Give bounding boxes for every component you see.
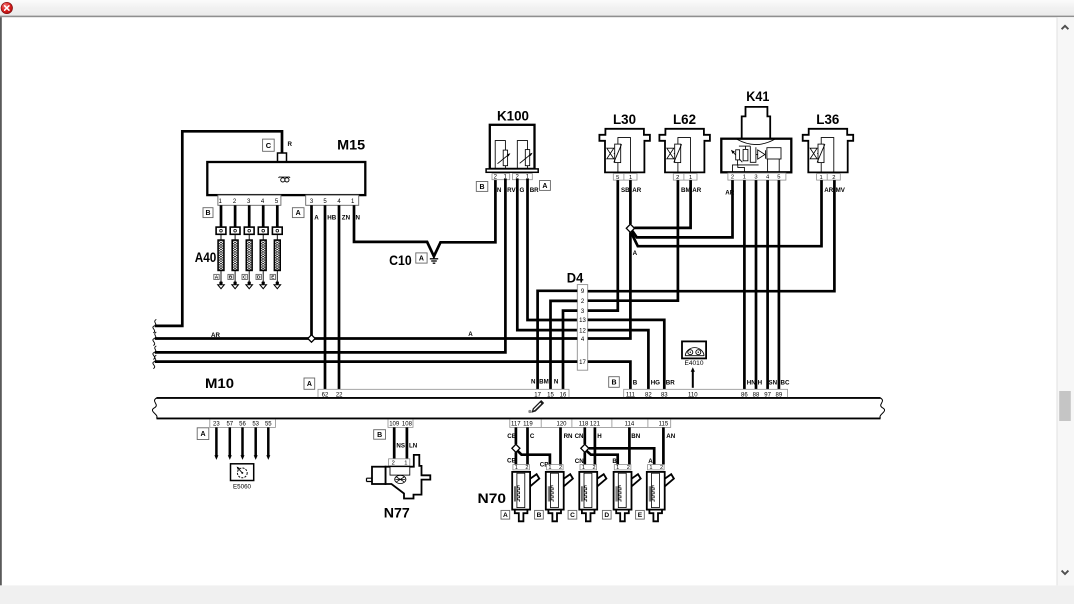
ground C10 symbol — [433, 256, 435, 259]
L36 internal resistor — [818, 144, 824, 163]
glow plug A40-D ground lead — [262, 270, 264, 281]
wire M10 pin117 to injector junction (CB) — [515, 427, 518, 444]
svg-text:2: 2 — [731, 175, 734, 181]
injector N70-A body — [512, 472, 530, 510]
glow plug A40-B heater body — [234, 234, 236, 240]
svg-text:A: A — [648, 458, 653, 465]
close button — [1, 2, 12, 13]
M10 bus left wavy end — [152, 398, 157, 419]
wire M10 pin115 to injector E pin2 (AN) — [662, 427, 665, 464]
glow plug A40-C ground lead — [248, 270, 250, 281]
wire K100 G to D4 pin 12 — [517, 179, 577, 330]
air flow meter K41 body — [721, 139, 791, 173]
svg-text:ZN: ZN — [342, 214, 351, 221]
wire M15 B3 to glow plug C — [248, 205, 251, 227]
K41 body arc — [737, 139, 775, 144]
svg-text:57: 57 — [226, 422, 233, 428]
svg-text:D4: D4 — [567, 270, 584, 286]
svg-text:B: B — [633, 379, 638, 386]
injector N70-E nozzle — [649, 510, 662, 522]
svg-text:L36: L36 — [816, 111, 839, 127]
svg-text:A: A — [503, 512, 508, 519]
sensor K100 box — [490, 125, 535, 169]
wire K41 pin4 to M10 pin97 (SN) — [766, 180, 769, 389]
svg-text:HG: HG — [651, 379, 660, 386]
svg-text:BR: BR — [666, 379, 675, 386]
ground node dot (A40-B) — [233, 281, 236, 284]
wire CB junction to injector B pin1 — [517, 451, 550, 465]
wire M15 B2 to glow plug B — [234, 205, 237, 227]
svg-text:BN: BN — [631, 433, 640, 440]
ECU M10 bus band — [157, 397, 881, 399]
svg-text:B: B — [205, 210, 210, 217]
M10 bottom pin row A (23 57 56 53 55) — [210, 418, 276, 427]
svg-text:R: R — [288, 141, 293, 148]
svg-text:1: 1 — [649, 465, 652, 471]
terminal letter box C (A40) — [242, 274, 247, 279]
injector N70-A side tab — [530, 474, 539, 486]
svg-text:A: A — [468, 331, 473, 338]
L30 internal switch (bowtie) — [607, 148, 614, 159]
glow plug A40-B connector — [230, 227, 240, 234]
wire M15 A5 to M10 pin62 (HB) — [324, 205, 327, 389]
wire K100 BR to D4 pin 13 — [528, 179, 578, 320]
svg-text:C: C — [570, 512, 575, 519]
svg-text:119: 119 — [523, 422, 533, 428]
wire off-page to D4 pin17 — [155, 360, 578, 363]
svg-text:CB: CB — [507, 457, 516, 464]
svg-text:K41: K41 — [746, 88, 769, 104]
glow plug A40-C connector — [244, 227, 254, 234]
wire M15 B4 to glow plug D — [262, 205, 265, 227]
svg-text:A: A — [215, 275, 219, 281]
E4010 symbol — [685, 348, 704, 356]
connector label box B (M10 bottom) — [374, 430, 386, 440]
K100 pin row A (2 1) — [512, 174, 532, 180]
svg-text:G: G — [520, 187, 525, 194]
junction diamond (CN net) — [581, 444, 589, 452]
svg-text:N: N — [497, 187, 502, 194]
wire D4 pin4 to AR junction (A) — [588, 232, 631, 338]
connector label box A (K100) — [540, 181, 551, 191]
svg-text:1: 1 — [582, 465, 585, 471]
wire M15 B1 to glow plug A — [220, 205, 223, 227]
svg-text:1: 1 — [743, 175, 746, 181]
svg-text:2: 2 — [592, 465, 595, 471]
M10 bottom pin row N70 (117..115) — [510, 418, 671, 427]
M10 bus band outline (over pin rows) — [157, 397, 881, 399]
off-page squiggle (AR wire) — [153, 332, 156, 346]
wire D4 pin2 to M10 pin15 (BM) — [551, 301, 578, 389]
wire D4 pin3 to L30 pin5 (SB) — [588, 180, 618, 311]
off-page squiggle (RV wire) — [153, 346, 156, 360]
glow plug A40-E heater body — [276, 234, 278, 240]
wire M10 pin109 to N77 (NS) — [393, 427, 396, 458]
wire AR off-page to D4 pin4 — [155, 337, 578, 340]
injector N70-C core — [584, 473, 592, 507]
content left border — [0, 17, 2, 585]
svg-text:109: 109 — [389, 422, 400, 428]
svg-text:2: 2 — [832, 175, 835, 181]
injector N70-B nozzle — [548, 510, 561, 522]
wire CN junction to injector D pin1 — [586, 451, 617, 465]
pencil hotspot icon (M10) — [530, 400, 544, 414]
L30 internal resistor — [615, 144, 621, 163]
K41 internal bottom links — [733, 165, 759, 172]
glow plug A40-A ground lead — [220, 270, 222, 281]
N77 internal — [390, 467, 410, 475]
M10 bus right wavy end — [880, 398, 885, 419]
wire M15 A1 / K100 N to ground C10 — [354, 179, 495, 256]
title bar — [0, 0, 1074, 16]
svg-text:AR: AR — [692, 187, 701, 194]
wire M10 pin120 to injector B pin2 (RN) — [559, 427, 562, 464]
connector label box A (M10 top) — [304, 378, 315, 389]
instrument E5060 box — [231, 464, 254, 481]
svg-text:1: 1 — [515, 465, 518, 471]
svg-text:108: 108 — [402, 422, 413, 428]
svg-text:BM: BM — [539, 378, 549, 385]
injector N70-C pin row — [580, 465, 597, 470]
svg-text:2: 2 — [525, 465, 528, 471]
svg-text:1: 1 — [404, 461, 407, 467]
injector N70-D body — [614, 472, 632, 510]
L36 internal switch (bowtie) — [810, 148, 817, 159]
connector label box A (M15) — [292, 208, 304, 218]
wire CN junction to injector E pin1 — [589, 448, 654, 464]
svg-text:117: 117 — [511, 422, 521, 428]
svg-text:2: 2 — [676, 175, 679, 181]
ground symbol (A40-B) — [232, 285, 239, 289]
svg-text:M10: M10 — [205, 375, 234, 391]
glow plug A40-A heater body — [220, 234, 222, 240]
svg-text:C: C — [266, 141, 272, 150]
off-page squiggle (pin17 wire) — [153, 355, 156, 369]
lambda sensor E4010 box — [682, 341, 706, 358]
svg-text:LN: LN — [409, 443, 418, 450]
M10 top pin row left — [318, 389, 569, 398]
ground node dot (A40-D) — [262, 281, 265, 284]
svg-text:A40: A40 — [195, 249, 217, 265]
terminal letter box E (A40) — [270, 274, 275, 279]
svg-text:N: N — [356, 214, 361, 221]
arrow M10 to E5060 (pin) — [254, 427, 257, 456]
glow plug A40-E connector — [272, 227, 282, 234]
svg-text:1: 1 — [689, 175, 692, 181]
terminal letter box A (A40) — [214, 274, 219, 279]
sensor L30 body — [599, 129, 650, 173]
svg-text:BM: BM — [681, 187, 691, 194]
ground symbol (A40-A) — [218, 285, 225, 289]
injector N70-B body — [546, 472, 564, 510]
wire D4 pin9 to L36 pin2 (MV) — [588, 180, 835, 291]
sensor L36 body — [803, 129, 854, 173]
wire CN junction to injector C pin1 — [583, 452, 586, 464]
wire M10 pin121 to injector C pin2 (H) — [594, 427, 597, 464]
svg-text:HB: HB — [327, 214, 336, 221]
junction diamond (CB net) — [512, 444, 520, 452]
wire M15 connector C to off-page (R) — [155, 131, 282, 326]
svg-text:N: N — [531, 378, 536, 385]
N77 left block — [372, 467, 386, 484]
injector N70-A pin row — [513, 465, 530, 470]
injector N70-A core — [517, 473, 525, 507]
control unit M15 box — [207, 162, 365, 195]
terminal letter box B (A40) — [228, 274, 233, 279]
glow plug A40-D connector — [258, 227, 268, 234]
svg-text:1: 1 — [819, 175, 822, 181]
wire M15 A4 to M10 pin22 (ZN) — [338, 205, 341, 389]
E5060 speedometer symbol — [237, 468, 247, 478]
svg-text:AR: AR — [632, 187, 641, 194]
K41 internal amplifier triangle — [758, 150, 765, 159]
injector N70-E core — [652, 473, 660, 507]
scrollbar up arrow — [1062, 26, 1069, 29]
svg-text:A: A — [307, 381, 312, 388]
svg-text:D: D — [604, 512, 609, 519]
injector N70-E pin row — [648, 465, 665, 470]
wire K41 pin5 to M10 pin89 (BC) — [778, 180, 781, 389]
svg-text:13: 13 — [579, 318, 586, 324]
svg-text:B: B — [612, 458, 617, 465]
arrow M10 to E5060 (pin) — [241, 427, 244, 456]
svg-text:BC: BC — [781, 379, 790, 386]
junction diamond (AR / M15 A3) — [308, 335, 315, 342]
K100 mounting flange — [486, 169, 538, 172]
svg-text:E: E — [638, 512, 643, 519]
injector N70-E body — [647, 472, 665, 510]
injector N70-D side tab — [632, 474, 641, 486]
svg-text:A: A — [633, 250, 638, 257]
svg-text:L30: L30 — [613, 111, 636, 127]
svg-text:BR: BR — [530, 187, 539, 194]
K100 thermistor 1 — [495, 141, 505, 169]
injector N70-C nozzle — [582, 510, 595, 522]
svg-text:B: B — [229, 275, 233, 281]
injector N70-D nozzle — [616, 510, 629, 522]
cylinder letter box D (N70) — [602, 510, 611, 519]
scrollbar down arrow — [1062, 571, 1069, 574]
injector N70-E side tab — [665, 474, 674, 486]
svg-text:115: 115 — [659, 422, 669, 428]
injector N70-C side tab — [597, 474, 606, 486]
cylinder letter box B (N70) — [535, 510, 544, 519]
connector label box C (M15) — [263, 139, 275, 151]
arrow M10 to E5060 (pin) — [215, 427, 218, 456]
svg-text:121: 121 — [590, 422, 601, 428]
svg-text:1: 1 — [616, 465, 619, 471]
K100 pin row B (2 1) — [492, 174, 510, 180]
L62 internal resistor — [675, 144, 681, 163]
svg-text:A: A — [542, 183, 547, 190]
wire K100 RV to off-page — [155, 179, 506, 353]
svg-text:NS: NS — [396, 443, 405, 450]
L36 pin row — [817, 174, 841, 181]
scrollbar track — [1057, 17, 1074, 585]
svg-text:M15: M15 — [337, 137, 365, 153]
arrow M10 pin110 to E4010 — [692, 370, 694, 388]
svg-text:2: 2 — [392, 461, 395, 467]
svg-text:K100: K100 — [497, 107, 529, 123]
svg-text:2: 2 — [660, 465, 663, 471]
svg-text:N: N — [554, 378, 559, 385]
wire L62 pin1 to AR junction — [634, 180, 690, 228]
arrow M10 to E5060 (pin) — [267, 427, 270, 456]
svg-text:5: 5 — [616, 175, 619, 181]
svg-text:B: B — [611, 380, 616, 387]
svg-text:2: 2 — [559, 465, 562, 471]
svg-text:53: 53 — [252, 422, 259, 428]
L62 internal switch (bowtie) — [667, 148, 674, 159]
svg-text:E5060: E5060 — [233, 485, 252, 491]
K100 thermistor 2 — [517, 141, 527, 169]
L62 pin row — [673, 174, 697, 181]
svg-text:1: 1 — [548, 465, 551, 471]
wire AR junction to L36 pin1 — [631, 180, 821, 246]
K41 internal variable resistor — [732, 151, 742, 162]
svg-text:B: B — [480, 184, 485, 191]
wire M15 B5 to glow plug E — [276, 205, 279, 227]
svg-text:N70: N70 — [478, 490, 507, 506]
svg-text:1: 1 — [629, 175, 632, 181]
svg-text:L62: L62 — [673, 111, 696, 127]
wire M10 pin118 to injector junction (CN) — [583, 427, 586, 444]
wire L30 pin1 to AR junction — [629, 180, 632, 224]
svg-text:23: 23 — [213, 422, 220, 428]
connector D4 strip — [577, 285, 587, 371]
svg-text:120: 120 — [556, 422, 567, 428]
svg-text:E4010: E4010 — [685, 361, 705, 367]
cylinder letter box E (N70) — [636, 510, 645, 519]
wire D4 pin2 to L62 pin2 (BM) — [588, 180, 678, 301]
svg-text:C10: C10 — [389, 252, 412, 268]
wire D4 pin12 to M10 pin82 (HG) — [588, 330, 649, 389]
svg-text:56: 56 — [239, 422, 246, 428]
svg-text:A: A — [314, 214, 319, 221]
L30 pin row — [613, 174, 637, 181]
svg-text:114: 114 — [625, 422, 635, 428]
connector label box B (K100) — [476, 182, 488, 192]
glow plug A40-C heater body — [248, 234, 250, 240]
cylinder letter box C (N70) — [568, 510, 577, 519]
svg-text:17: 17 — [579, 360, 586, 366]
junction diamond (AR net) — [626, 224, 634, 232]
svg-text:A: A — [419, 256, 424, 263]
injector N70-C body — [579, 472, 597, 510]
injector N70-B core — [551, 473, 559, 507]
wire K41 pin1 to M10 pin86 (HN) — [743, 180, 746, 389]
svg-text:A: A — [296, 210, 301, 217]
ground node dot (A40-E) — [276, 281, 279, 284]
svg-text:RV: RV — [507, 187, 516, 194]
M15 connector B pin row — [218, 195, 281, 205]
glow plug A40-B ground lead — [234, 270, 236, 281]
scrollbar thumb — [1059, 391, 1071, 421]
svg-text:H: H — [597, 433, 602, 440]
glow plug A40-D heater body — [262, 234, 264, 240]
svg-text:5: 5 — [777, 175, 780, 181]
svg-text:RN: RN — [564, 433, 573, 440]
wire D4 pin3 to M10 pin16 (N) — [563, 311, 577, 390]
wire K41 pin3 to M10 pin88 (H) — [755, 180, 758, 389]
terminal letter box D (A40) — [256, 274, 261, 279]
M10 bottom pin row B (109 108) — [388, 418, 413, 427]
K41 pin row — [728, 173, 786, 180]
svg-text:H: H — [758, 379, 763, 386]
bottom bar — [0, 585, 1074, 604]
glow plug A40-A connector — [216, 227, 226, 234]
wire AR junction to K41 pin2 — [632, 180, 732, 237]
injector N70-B side tab — [564, 474, 573, 486]
wire CB junction to injector A pin1 — [515, 452, 518, 464]
K41 internal bracket — [750, 146, 756, 162]
ground symbol (A40-E) — [274, 285, 281, 289]
connector C pin stub (M15) — [278, 153, 287, 162]
ground node dot (A40-C) — [248, 281, 251, 284]
svg-text:HN: HN — [747, 379, 756, 386]
connector label box B (M15) — [203, 208, 213, 218]
injector N70-B pin row — [547, 465, 564, 470]
svg-text:AR: AR — [824, 187, 833, 194]
wire M10 pin119 to injector A pin2 (C) — [526, 427, 529, 464]
arrow M10 to E5060 (pin) — [229, 427, 232, 456]
svg-text:SB: SB — [621, 187, 630, 194]
ground node dot (A40-A) — [219, 281, 222, 284]
connector label box A (C10) — [416, 253, 427, 263]
svg-text:118: 118 — [579, 422, 589, 428]
svg-text:C: C — [530, 433, 535, 440]
svg-text:CN: CN — [575, 433, 584, 440]
M15 internal glow-plug glyph — [279, 176, 290, 179]
wire D4 pin17 to M10 pin111 (B) — [588, 362, 631, 390]
svg-text:MV: MV — [836, 187, 846, 194]
svg-text:12: 12 — [579, 328, 586, 334]
svg-text:SN: SN — [769, 379, 778, 386]
K41 internal resistor 2 — [743, 149, 748, 160]
svg-text:C: C — [243, 275, 247, 281]
wire D4 pin9 to M10 pin17 (N) — [538, 291, 578, 390]
svg-text:2: 2 — [627, 465, 630, 471]
actuator N77 body — [386, 455, 431, 499]
wire M10 pin108 to N77 (LN) — [406, 427, 409, 458]
connector label box A (M10 bottom) — [197, 428, 209, 440]
sensor L62 body — [659, 129, 710, 173]
svg-text:N77: N77 — [384, 505, 410, 521]
svg-text:AN: AN — [666, 433, 675, 440]
svg-text:D: D — [257, 275, 261, 281]
air flow meter K41 connector tower — [742, 107, 771, 138]
injector N70-A nozzle — [515, 510, 528, 522]
wire M10 pin114 to injector D pin2 (BN) — [628, 427, 631, 464]
N77 pin row — [389, 459, 410, 466]
off-page squiggle (C wire) — [153, 319, 156, 333]
cylinder letter box A (N70) — [501, 510, 510, 519]
svg-text:55: 55 — [265, 422, 272, 428]
glow plug A40-E ground lead — [276, 270, 278, 281]
svg-text:B: B — [537, 512, 542, 519]
svg-text:B: B — [377, 432, 382, 439]
M10 top pin row right — [624, 389, 788, 398]
svg-text:AR: AR — [211, 332, 220, 339]
svg-text:A: A — [200, 431, 205, 438]
svg-text:3: 3 — [754, 175, 757, 181]
wire M15 A3 to AR junction — [310, 205, 313, 338]
wire D4 pin13 to M10 pin83 (BR) — [588, 320, 665, 389]
connector label box B (M10 top) — [609, 377, 620, 388]
injector N70-D pin row — [614, 465, 631, 470]
ground symbol (A40-D) — [260, 285, 267, 289]
M15 connector A pin row — [306, 195, 359, 205]
